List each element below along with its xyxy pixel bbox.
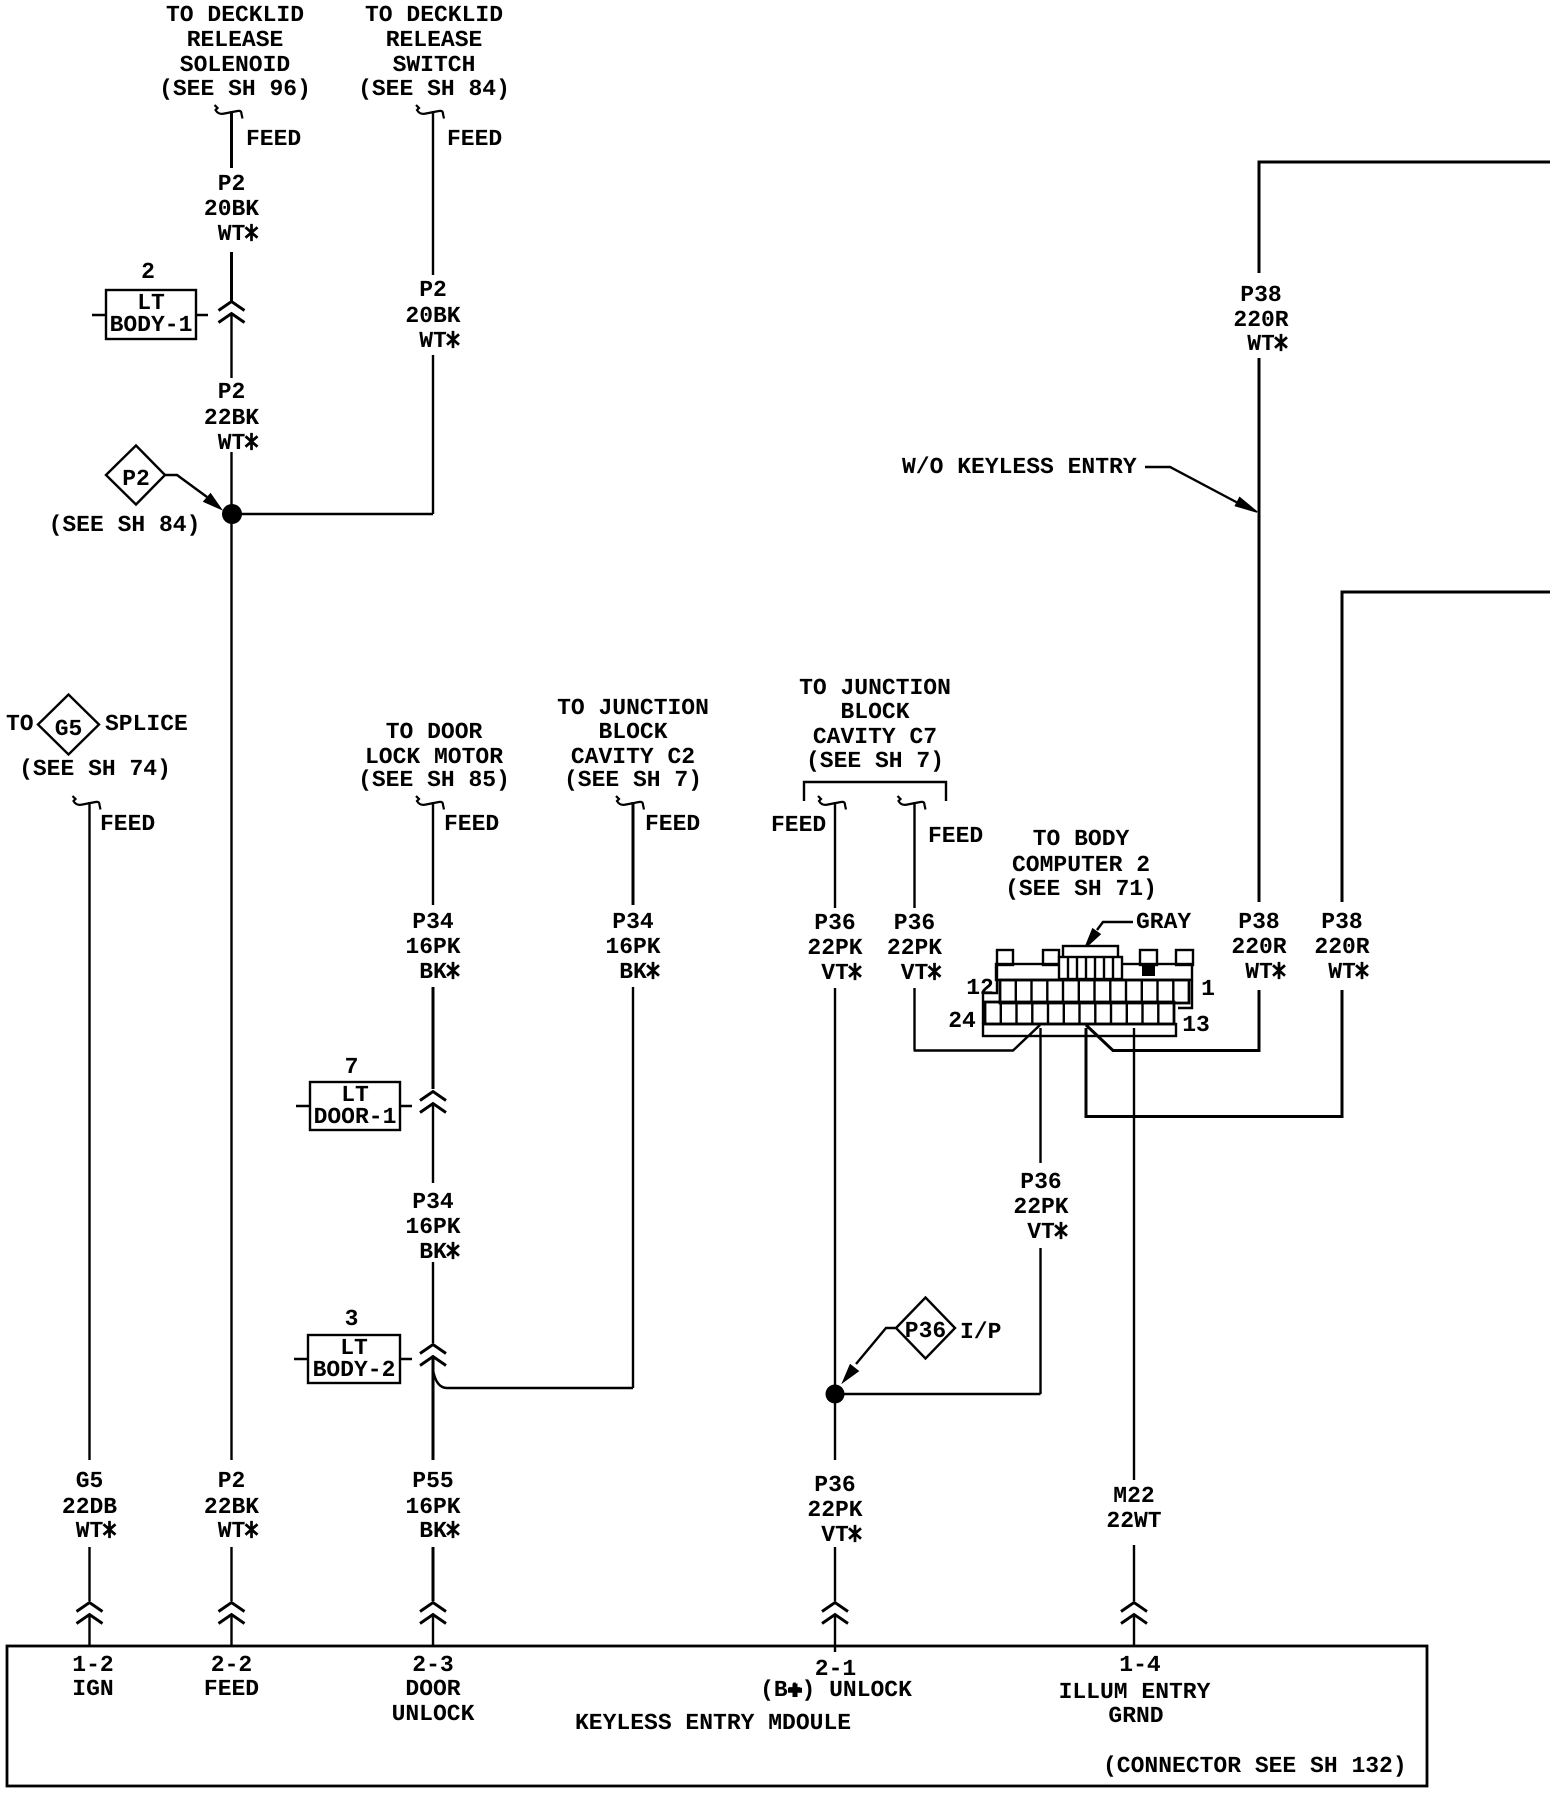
svg-text:FEED: FEED bbox=[204, 1676, 259, 1702]
label M22 22WT bbox=[1106, 1483, 1161, 1534]
svg-text:(SEE SH 74): (SEE SH 74) bbox=[19, 756, 171, 782]
svg-text:(CONNECTOR SEE SH 132): (CONNECTOR SEE SH 132) bbox=[1103, 1753, 1407, 1779]
wire P36 22PK (C7 right) bbox=[914, 802, 1041, 1051]
terminal 2-3 DOOR UNLOCK bbox=[392, 1652, 475, 1727]
terminal 2-2 FEED bbox=[204, 1652, 259, 1702]
svg-text:22DB: 22DB bbox=[62, 1494, 117, 1520]
svg-text:16PK: 16PK bbox=[405, 1494, 460, 1520]
svg-text:GRAY: GRAY bbox=[1136, 909, 1191, 935]
junction dot P2 bbox=[222, 504, 242, 524]
svg-text:2: 2 bbox=[141, 259, 155, 285]
off-page hook (decklid switch) bbox=[416, 105, 444, 119]
svg-text:ILLUM ENTRY: ILLUM ENTRY bbox=[1059, 1679, 1211, 1705]
svg-text:SWITCH: SWITCH bbox=[393, 52, 476, 78]
label P36 22PK VT* (right) bbox=[887, 910, 942, 986]
svg-text:220R: 220R bbox=[1233, 307, 1288, 333]
svg-text:P36: P36 bbox=[814, 910, 855, 936]
svg-text:WT: WT bbox=[218, 1518, 246, 1544]
svg-text:13: 13 bbox=[1182, 1012, 1210, 1038]
svg-text:TO DOOR: TO DOOR bbox=[386, 719, 483, 745]
wire break at LT DOOR-1 bbox=[420, 1092, 446, 1113]
label P38 220R WT* (bottom left) bbox=[1231, 909, 1286, 985]
label P55 16PK BK* (bottom) bbox=[405, 1468, 460, 1544]
svg-text:P36: P36 bbox=[1020, 1169, 1061, 1195]
node: TO DECKLID RELEASE SOLENOID header bbox=[159, 2, 311, 102]
svg-text:FEED: FEED bbox=[100, 811, 155, 837]
terminal 1-4 ILLUM ENTRY GRND bbox=[1059, 1652, 1211, 1729]
label GRAY with leader arrow bbox=[1085, 909, 1191, 948]
svg-text:COMPUTER 2: COMPUTER 2 bbox=[1012, 852, 1150, 878]
inline splice 3 LT BODY-2 bbox=[294, 1306, 412, 1383]
svg-text:P34: P34 bbox=[612, 909, 654, 935]
terminal 2-1 (B+) UNLOCK bbox=[760, 1656, 912, 1703]
label P34 16PK BK* (upper) bbox=[405, 909, 460, 985]
svg-text:22PK: 22PK bbox=[1013, 1194, 1068, 1220]
wire break on P2 wire bbox=[219, 302, 245, 323]
svg-text:FEED: FEED bbox=[246, 126, 301, 152]
svg-text:22PK: 22PK bbox=[887, 935, 942, 961]
wire M22 22WT from connector to module bbox=[1133, 1028, 1135, 1601]
label P34 16PK BK* (C2) bbox=[605, 909, 660, 985]
svg-text:(SEE SH 7): (SEE SH 7) bbox=[564, 767, 702, 793]
wire P2 22BK segment bbox=[230, 314, 232, 506]
svg-text:RELEASE: RELEASE bbox=[187, 27, 284, 53]
svg-text:BLOCK: BLOCK bbox=[840, 699, 909, 725]
svg-text:(SEE SH 71): (SEE SH 71) bbox=[1005, 876, 1157, 902]
splice symbol P36 diamond with I/P bbox=[896, 1298, 1001, 1359]
svg-text:RELEASE: RELEASE bbox=[386, 27, 483, 53]
connector housing band bbox=[996, 964, 1192, 980]
svg-text:P55: P55 bbox=[412, 1468, 453, 1494]
svg-text:P2: P2 bbox=[218, 171, 246, 197]
svg-text:IGN: IGN bbox=[72, 1676, 113, 1702]
svg-text:CAVITY C7: CAVITY C7 bbox=[813, 724, 937, 750]
label P38 220R WT* (top) bbox=[1233, 282, 1288, 357]
connector top tabs bbox=[997, 950, 1013, 965]
terminal 1-2 IGN bbox=[72, 1652, 113, 1702]
bracket under C7 header bbox=[804, 782, 946, 801]
node: TO BODY COMPUTER 2 header bbox=[1005, 826, 1157, 902]
svg-text:TO: TO bbox=[6, 711, 34, 737]
label P2 20BK WT* (switch) bbox=[405, 277, 460, 354]
wire break at LT BODY-2 bbox=[420, 1345, 446, 1366]
keyless entry module box bbox=[7, 1646, 1427, 1786]
svg-text:22PK: 22PK bbox=[807, 935, 862, 961]
inline splice 7 LT DOOR-1 bbox=[296, 1054, 412, 1130]
svg-text:1: 1 bbox=[1201, 976, 1215, 1002]
svg-text:BK: BK bbox=[619, 959, 647, 985]
off-page hook (decklid solenoid) bbox=[215, 105, 243, 119]
svg-text:22WT: 22WT bbox=[1106, 1508, 1161, 1534]
inline splice 2 LT BODY-1 bbox=[92, 259, 208, 339]
svg-text:P34: P34 bbox=[412, 1189, 454, 1215]
svg-text:1-4: 1-4 bbox=[1119, 1652, 1161, 1678]
svg-text:GRND: GRND bbox=[1108, 1703, 1163, 1729]
svg-text:(SEE SH 7): (SEE SH 7) bbox=[806, 748, 944, 774]
svg-text:M22: M22 bbox=[1113, 1483, 1154, 1509]
svg-text:22BK: 22BK bbox=[204, 1494, 259, 1520]
svg-text:WT: WT bbox=[218, 430, 246, 456]
svg-text:16PK: 16PK bbox=[405, 934, 460, 960]
off-page hook (C7 left) bbox=[818, 796, 846, 810]
junction dot P36 bbox=[826, 1385, 845, 1404]
wire P34 16PK (cavity C2) bbox=[632, 802, 635, 905]
svg-text:P38: P38 bbox=[1238, 909, 1279, 935]
svg-text:P34: P34 bbox=[412, 909, 454, 935]
svg-text:P36: P36 bbox=[894, 910, 935, 936]
svg-text:(SEE SH 84): (SEE SH 84) bbox=[358, 76, 510, 102]
svg-text:SOLENOID: SOLENOID bbox=[180, 52, 290, 78]
svg-text:P38: P38 bbox=[1240, 282, 1281, 308]
svg-text:VT: VT bbox=[901, 960, 929, 986]
svg-text:3: 3 bbox=[345, 1306, 359, 1332]
svg-text:KEYLESS ENTRY MDOULE: KEYLESS ENTRY MDOULE bbox=[575, 1710, 851, 1736]
wire breaks above module bbox=[77, 1603, 103, 1624]
wire P38 220R (w/o keyless entry) top run bbox=[1086, 162, 1550, 1051]
svg-text:FEED: FEED bbox=[444, 811, 499, 837]
svg-text:P36: P36 bbox=[905, 1318, 946, 1344]
off-page hook (door lock motor) bbox=[416, 796, 444, 810]
svg-text:(SEE SH 85): (SEE SH 85) bbox=[358, 767, 510, 793]
node: TO DOOR LOCK MOTOR header bbox=[358, 719, 510, 793]
svg-text:220R: 220R bbox=[1314, 934, 1369, 960]
label P2 22BK WT* (bottom) bbox=[204, 1468, 259, 1544]
svg-text:WT: WT bbox=[218, 221, 246, 247]
label P36 22PK VT* (middle) bbox=[1013, 1169, 1068, 1245]
wire P34 16PK (door lock motor) bbox=[432, 802, 434, 905]
svg-text:WT: WT bbox=[76, 1518, 104, 1544]
svg-text:UNLOCK: UNLOCK bbox=[392, 1701, 475, 1727]
wire P55 16PK to module bbox=[432, 1357, 435, 1601]
node: TO G5 SPLICE header bbox=[6, 695, 188, 783]
svg-text:TO BODY: TO BODY bbox=[1033, 826, 1130, 852]
svg-text:WT: WT bbox=[1247, 331, 1275, 357]
svg-text:24: 24 bbox=[948, 1008, 976, 1034]
svg-text:BODY-2: BODY-2 bbox=[313, 1357, 396, 1383]
wire G5 22DB bbox=[88, 802, 90, 1601]
svg-text:TO DECKLID: TO DECKLID bbox=[365, 2, 503, 28]
svg-text:SPLICE: SPLICE bbox=[105, 711, 188, 737]
connector pin row 1 (1-12) bbox=[1000, 980, 1189, 1003]
connector U1 (body computer 2, gray 24-way) bbox=[983, 946, 1193, 1036]
svg-text:TO JUNCTION: TO JUNCTION bbox=[557, 695, 709, 721]
svg-text:1-2: 1-2 bbox=[72, 1652, 113, 1678]
wire P2 20BK feed (decklid solenoid) bbox=[230, 111, 233, 301]
leader arrow from P2 diamond to junction bbox=[165, 475, 221, 509]
svg-text:20BK: 20BK bbox=[204, 196, 259, 222]
svg-text:16PK: 16PK bbox=[405, 1214, 460, 1240]
wire C2 joins LT BODY-2 break bbox=[433, 1370, 633, 1388]
label G5 22DB WT* (bottom) bbox=[62, 1468, 117, 1544]
svg-text:DOOR: DOOR bbox=[405, 1676, 460, 1702]
svg-text:(SEE SH 84): (SEE SH 84) bbox=[49, 512, 201, 538]
label P38 220R WT* (bottom right) bbox=[1314, 909, 1369, 985]
svg-text:FEED: FEED bbox=[447, 126, 502, 152]
splice symbol P2 diamond bbox=[106, 446, 165, 505]
connector left step outline bbox=[983, 966, 997, 1024]
svg-text:P2: P2 bbox=[218, 379, 246, 405]
wire stubs into module bbox=[90, 1615, 1135, 1652]
svg-text:FEED: FEED bbox=[645, 811, 700, 837]
wire junction to module (P2 22BK) bbox=[230, 524, 232, 1601]
label P2 22BK WT* bbox=[204, 379, 259, 456]
label P36 22PK VT* (bottom) bbox=[807, 1472, 862, 1548]
off-page hook (G5) bbox=[73, 796, 101, 810]
node: TO JUNCTION BLOCK CAVITY C7 header bbox=[799, 675, 951, 774]
svg-text:BK: BK bbox=[419, 1239, 447, 1265]
svg-text:22PK: 22PK bbox=[807, 1497, 862, 1523]
svg-text:BLOCK: BLOCK bbox=[598, 719, 667, 745]
svg-text:P38: P38 bbox=[1321, 909, 1362, 935]
label W/O KEYLESS ENTRY with leader arrow bbox=[902, 454, 1257, 512]
svg-text:BK: BK bbox=[419, 1518, 447, 1544]
wire P36 22PK (C7 left) bbox=[834, 802, 836, 1385]
svg-text:BK: BK bbox=[419, 959, 447, 985]
svg-text:FEED: FEED bbox=[771, 812, 826, 838]
svg-text:2-2: 2-2 bbox=[211, 1652, 252, 1678]
connector pin row 2 (13-24) bbox=[985, 1002, 1174, 1024]
svg-text:P36: P36 bbox=[814, 1472, 855, 1498]
wire P38 220R second run bbox=[1086, 592, 1550, 1117]
svg-text:16PK: 16PK bbox=[605, 934, 660, 960]
connector right step outline bbox=[1178, 980, 1192, 1008]
svg-text:TO JUNCTION: TO JUNCTION bbox=[799, 675, 951, 701]
label P34 16PK BK* (middle) bbox=[405, 1189, 460, 1265]
svg-text:FEED: FEED bbox=[928, 823, 983, 849]
svg-text:20BK: 20BK bbox=[405, 303, 460, 329]
connector bottom plate bbox=[983, 1024, 1176, 1036]
svg-text:I/P: I/P bbox=[960, 1319, 1001, 1345]
svg-text:P2: P2 bbox=[419, 277, 447, 303]
svg-text:BODY-1: BODY-1 bbox=[110, 312, 193, 338]
svg-text:W/O KEYLESS ENTRY: W/O KEYLESS ENTRY bbox=[902, 454, 1137, 480]
svg-text:G5: G5 bbox=[55, 716, 83, 742]
label P36 22PK VT* (left) bbox=[807, 910, 862, 986]
leader arrow from P36 diamond to junction bbox=[843, 1328, 896, 1382]
connector key bbox=[1063, 946, 1118, 958]
svg-text:TO DECKLID: TO DECKLID bbox=[166, 2, 304, 28]
svg-text:7: 7 bbox=[345, 1054, 359, 1080]
svg-text:WT: WT bbox=[419, 328, 447, 354]
off-page hook (C7 right) bbox=[898, 796, 926, 810]
svg-text:VT: VT bbox=[821, 960, 849, 986]
off-page hook (cavity C2) bbox=[616, 796, 644, 810]
svg-text:VT: VT bbox=[821, 1522, 849, 1548]
node: TO JUNCTION BLOCK CAVITY C2 header bbox=[557, 695, 709, 793]
svg-text:22BK: 22BK bbox=[204, 405, 259, 431]
wire from pin 24 region down (P36 22PK VT*) bbox=[842, 1028, 1041, 1394]
svg-text:(SEE SH 96): (SEE SH 96) bbox=[159, 76, 311, 102]
wire P2 20BK (decklid switch) bbox=[240, 111, 433, 514]
wire P36 below junction to module bbox=[834, 1403, 836, 1601]
svg-text:WT: WT bbox=[1328, 959, 1356, 985]
svg-text:WT: WT bbox=[1245, 959, 1273, 985]
svg-text:P2: P2 bbox=[218, 1468, 246, 1494]
svg-text:12: 12 bbox=[966, 975, 994, 1001]
svg-text:P2: P2 bbox=[122, 466, 150, 492]
svg-text:2-3: 2-3 bbox=[412, 1652, 453, 1678]
label P2 20BK WT* bbox=[204, 171, 259, 247]
wire P34 16PK middle segment bbox=[432, 1104, 434, 1343]
svg-text:(B+) UNLOCK: (B+) UNLOCK bbox=[760, 1677, 912, 1703]
svg-text:220R: 220R bbox=[1231, 934, 1286, 960]
svg-text:DOOR-1: DOOR-1 bbox=[314, 1104, 397, 1130]
svg-text:G5: G5 bbox=[76, 1468, 104, 1494]
svg-text:VT: VT bbox=[1027, 1219, 1055, 1245]
node: TO DECKLID RELEASE SWITCH header bbox=[358, 2, 510, 102]
